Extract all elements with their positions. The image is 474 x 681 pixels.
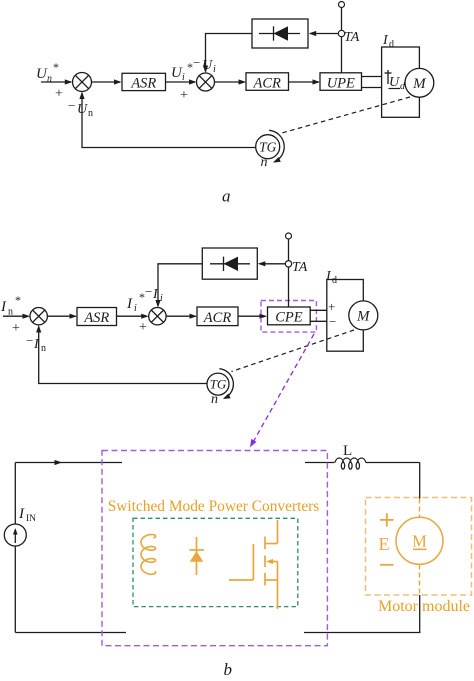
svg-text:+: + (139, 320, 147, 335)
wire input to summing junction S1a (41, 79, 72, 84)
svg-text:I: I (18, 506, 25, 522)
svg-text:*: * (15, 293, 21, 307)
svg-text:b: b (224, 660, 233, 676)
armature loop rectangle (b) (327, 280, 364, 352)
svg-text:CPE: CPE (275, 310, 303, 326)
inductor coil (inside converter) (141, 535, 156, 575)
wire TA to diode box (a) (309, 31, 342, 36)
svg-text:i: i (213, 64, 216, 75)
svg-text:n: n (211, 392, 218, 407)
svg-text:−: − (26, 333, 33, 348)
inductor L (335, 458, 366, 469)
svg-text:i: i (134, 303, 137, 314)
block UPE (a) (320, 73, 362, 92)
svg-text:ACR: ACR (203, 310, 232, 326)
wire bottom left segment (15, 632, 126, 634)
svg-text:IN: IN (26, 514, 36, 524)
tachogenerator TG (a) (256, 135, 280, 159)
svg-text:d: d (389, 39, 394, 50)
svg-text:n: n (88, 108, 93, 119)
svg-text:d: d (332, 275, 337, 286)
summing junction S1b (30, 308, 47, 325)
rotation arc arrow n (b) (219, 369, 233, 399)
motor M (a) (405, 68, 434, 97)
green dashed component box (133, 518, 298, 606)
wire top inside-right segment (305, 462, 335, 464)
svg-text:−: − (68, 98, 75, 113)
wire top left with arrow (15, 460, 122, 465)
magenta dashed highlight around CPE (261, 301, 316, 333)
current source IIN circle (4, 463, 26, 633)
block ACR (a) (246, 73, 289, 92)
wires CPE to armature loop (b) with polarity (310, 310, 327, 321)
svg-text:L: L (343, 443, 352, 459)
wire S1a to ASR (92, 79, 122, 84)
svg-text:−: − (145, 284, 152, 299)
wire TA to UPE (a) (341, 37, 343, 73)
node TA (a) (338, 30, 344, 36)
diode box VD (b) (202, 248, 257, 279)
wire ACR to CPE (238, 314, 267, 319)
block ASR (a) (122, 73, 166, 91)
wire S1b to ASR (b) (47, 314, 77, 319)
wire diode box to S2a with label -Ui (203, 34, 252, 74)
wire S2b to ACR (b) (166, 314, 197, 319)
wire TA to CPE (b) (288, 267, 290, 307)
svg-text:+: + (328, 299, 335, 314)
wire ASR to summing junction S2b (117, 314, 149, 319)
diode (inside converter) (190, 537, 205, 575)
svg-text:TA: TA (344, 30, 360, 45)
wire feedback TG to S1a (a) (79, 92, 255, 148)
node TA (b) (285, 261, 291, 267)
block CPE (268, 307, 311, 326)
svg-text:−: − (193, 55, 200, 70)
label IIN (18, 506, 36, 524)
tachogenerator TG (b) (207, 373, 229, 395)
label Id (b) (325, 269, 337, 286)
wires UPE to armature loop (a) (362, 77, 382, 88)
svg-text:+: + (180, 88, 188, 103)
svg-text:M: M (412, 76, 427, 92)
label -In feedback (26, 333, 46, 354)
wire bottom right segment (304, 632, 420, 634)
label Ii* (126, 290, 145, 314)
svg-text:TA: TA (292, 260, 308, 275)
svg-text:Motor module: Motor module (378, 598, 470, 615)
converter dashed magenta box (102, 451, 327, 646)
wire TA to diode box (b) (258, 261, 289, 266)
dashed shaft coupling M to TG (b) (232, 330, 355, 372)
svg-text:TG: TG (210, 377, 227, 392)
summing junction S1a (73, 73, 92, 92)
block ACR (b) (197, 307, 238, 326)
svg-text:n: n (261, 155, 268, 170)
svg-text:n: n (47, 74, 52, 85)
minus sign (module) (380, 564, 394, 566)
wire inductor to right corner (366, 462, 420, 464)
label -Ii (145, 284, 163, 304)
svg-text:n: n (41, 343, 46, 354)
plus sign (module) (380, 513, 394, 526)
wire input to summing junction S1b (3, 314, 30, 319)
label -Un feedback (68, 98, 93, 119)
label -Ui (193, 55, 216, 75)
summing junction S2b (149, 308, 166, 325)
svg-text:+: + (12, 321, 20, 336)
wire ACR to UPE (289, 79, 321, 84)
svg-text:TG: TG (259, 139, 277, 154)
svg-text:a: a (222, 187, 231, 206)
motor M (b) (349, 301, 378, 330)
svg-text:Switched Mode Power Converters: Switched Mode Power Converters (108, 498, 320, 515)
svg-text:ASR: ASR (130, 76, 156, 92)
zoom callout dashed arrow CPE to converter box (250, 334, 314, 447)
motor module dashed orange box (366, 498, 472, 596)
svg-text:I: I (126, 296, 133, 312)
MOSFET (inside converter) (229, 520, 278, 609)
svg-text:−: − (329, 314, 336, 329)
terminal circle top (b) (286, 233, 292, 239)
svg-text:ACR: ACR (253, 76, 282, 92)
armature loop rectangle (a) (382, 47, 420, 117)
node Un* input label (36, 60, 59, 85)
wire feedback TG to S1b (36, 325, 207, 384)
label Ui* (171, 60, 193, 83)
label Id (a) (382, 33, 394, 50)
orange dashed link top (motor module) (419, 499, 421, 518)
wire diode box to S2b (155, 264, 202, 308)
svg-text:i: i (160, 293, 163, 304)
svg-text:M: M (412, 531, 427, 550)
diode box VD (a) (252, 19, 308, 48)
wire ASR to summing junction S2a (166, 79, 197, 84)
summing junction S2a (197, 73, 215, 91)
terminal circle top (a) (339, 2, 345, 8)
svg-text:U: U (389, 75, 400, 90)
dashed shaft coupling M to TG (a) (280, 97, 410, 134)
wire terminal to TA (a) (341, 8, 343, 31)
svg-text:E: E (379, 534, 390, 554)
rotation arc arrow n (a) (269, 130, 284, 162)
motor M circle (module) (396, 517, 443, 564)
orange dashed link bottom (motor module) (419, 565, 421, 596)
svg-text:UPE: UPE (327, 76, 355, 92)
wire S2a to ACR (215, 79, 247, 84)
svg-text:M: M (356, 308, 371, 324)
label Ud with polarity arrow (a) (385, 70, 407, 92)
svg-text:U: U (202, 58, 213, 73)
svg-text:*: * (53, 60, 59, 74)
svg-text:+: + (55, 87, 63, 102)
wire right vertical top (black) (419, 463, 421, 499)
block ASR (b) (77, 308, 117, 327)
svg-text:ASR: ASR (83, 310, 109, 326)
label In* input (b) (0, 293, 21, 318)
wire terminal to TA (b) (288, 239, 290, 261)
wire right vertical bottom (black) (419, 595, 421, 633)
svg-text:I: I (0, 299, 7, 315)
